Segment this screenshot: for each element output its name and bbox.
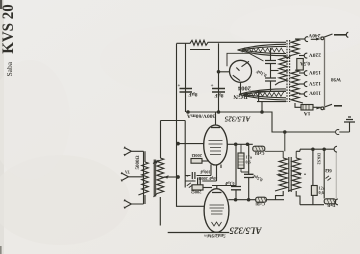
svg-text:DKS2: DKS2 — [317, 153, 322, 165]
svg-text:1A: 1A — [304, 110, 311, 116]
svg-text:100µF: 100µF — [199, 170, 210, 175]
svg-text:300V/60mA: 300V/60mA — [187, 112, 215, 118]
svg-text:8µF: 8µF — [188, 91, 198, 97]
svg-text:+: + — [192, 178, 195, 183]
svg-text:150V: 150V — [309, 69, 321, 75]
svg-text:KVS 20: KVS 20 — [0, 4, 17, 54]
svg-text:+: + — [211, 84, 214, 89]
svg-text:5mΩ/9W≈: 5mΩ/9W≈ — [204, 232, 226, 237]
svg-text:RGN: RGN — [233, 93, 248, 100]
svg-text:0,6: 0,6 — [246, 160, 251, 165]
svg-text:125V: 125V — [309, 80, 321, 86]
svg-text:AL5/325: AL5/325 — [224, 115, 251, 123]
svg-text:200Ω: 200Ω — [191, 190, 202, 195]
svg-text:W98: W98 — [331, 76, 342, 81]
svg-text:AL5/325: AL5/325 — [229, 226, 263, 236]
svg-text:DrB: DrB — [327, 203, 335, 208]
svg-text:2004: 2004 — [237, 84, 251, 91]
svg-text:110V: 110V — [309, 89, 321, 95]
svg-text:0,6: 0,6 — [319, 190, 324, 195]
svg-text:240V: 240V — [308, 32, 320, 38]
svg-text:+: + — [178, 84, 181, 89]
svg-text:5000Ω: 5000Ω — [136, 155, 141, 169]
svg-text:TA: TA — [125, 169, 130, 173]
svg-text:0,1µF: 0,1µF — [224, 181, 234, 186]
svg-text:8µF: 8µF — [214, 92, 224, 98]
svg-text:+: + — [186, 174, 189, 179]
svg-text:200Ω: 200Ω — [191, 153, 202, 158]
svg-text:CrBl: CrBl — [254, 151, 264, 156]
svg-text:6Ω: 6Ω — [325, 167, 332, 172]
svg-text:0,5A: 0,5A — [300, 60, 310, 65]
svg-text:CrBl: CrBl — [255, 202, 265, 207]
svg-text:220V: 220V — [309, 51, 321, 57]
svg-text:50µF 200Ω: 50µF 200Ω — [198, 176, 218, 181]
svg-text:Saba: Saba — [5, 61, 14, 76]
